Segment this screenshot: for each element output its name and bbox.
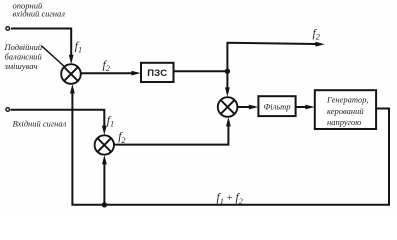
wire: node N2 up to mixer U3 bottom input — [102, 155, 107, 205]
mixer U1 (double balanced mixer) — [61, 64, 81, 84]
label: double balanced mixer (Подвійний балансний змішувач) — [4, 42, 43, 71]
svg-text:Вхідний сигнал: Вхідний сигнал — [13, 118, 67, 128]
mixer U3 — [95, 135, 114, 154]
node N2 (junction on bottom wire) — [102, 202, 107, 207]
svg-text:Подвійний: Подвійний — [4, 42, 43, 52]
block U6 Генератор, керований напругою (VCO) — [315, 90, 376, 129]
svg-text:ПЗС: ПЗС — [147, 68, 167, 79]
mixer U2 — [218, 97, 238, 117]
svg-text:Фільтр: Фільтр — [263, 101, 290, 111]
wire: T2 to mixer U3 top input — [11, 110, 107, 135]
wire: U2 output to filter box — [237, 105, 258, 110]
svg-text:балансний: балансний — [5, 52, 43, 62]
pointer line from label to mixer U1 — [42, 46, 65, 66]
wire: VCO output right, down, along bottom, up to mixer U1 bottom input — [70, 84, 389, 205]
wire: U1 output to PZS box — [81, 71, 141, 76]
wire: U3 output right then up to mixer U2 bottom input — [114, 117, 231, 145]
svg-text:керований: керований — [327, 106, 364, 116]
svg-text:напругою: напругою — [327, 117, 361, 127]
svg-text:Генератор,: Генератор, — [326, 95, 369, 105]
block U5 Фільтр (filter) — [258, 96, 295, 116]
wire: T1 to mixer U1 top input — [11, 29, 74, 65]
wire: PZS output to node N1 — [174, 70, 228, 72]
svg-text:вхідний сигнал: вхідний сигнал — [13, 9, 66, 19]
svg-text:змішувач: змішувач — [4, 61, 38, 71]
wire: node N1 down to mixer U2 top — [225, 71, 230, 97]
label: reference input signal (опорний вхідний сигнал) — [13, 0, 66, 18]
terminal T1 (reference input) — [6, 27, 10, 31]
wire: filter output to VCO box — [296, 105, 315, 110]
node N1 (junction) — [225, 69, 230, 74]
wire: node N1 up and right to f2 output — [227, 42, 324, 71]
terminal T2 (input signal) — [6, 108, 10, 112]
block U4 ПЗС — [141, 63, 174, 82]
